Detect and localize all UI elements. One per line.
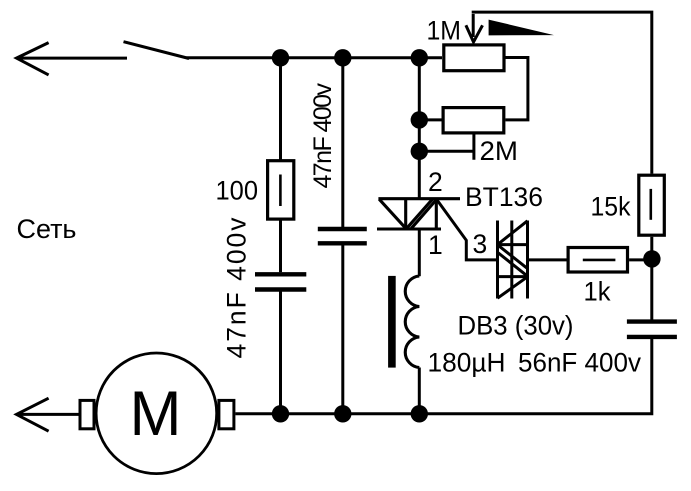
node: junction dot bottom rail left (272, 405, 289, 422)
wire: wiper to top right rail (473, 12, 652, 174)
motor M body (96, 353, 217, 474)
node: junction dot top rail 2 (334, 49, 351, 66)
adjustment wedge (black triangle) (489, 20, 554, 36)
switch S blade (124, 42, 190, 59)
resistor 1k (568, 248, 627, 273)
diac DB3 (498, 221, 528, 299)
inductor core bar (388, 276, 396, 368)
svg-text:1M: 1M (427, 16, 462, 46)
node: junction dot top rail 1 (272, 49, 289, 66)
wire: inductor to bottom rail (418, 368, 421, 414)
wire: mains lead bottom (arrow to left) (17, 398, 80, 431)
motor brush right (219, 400, 234, 428)
svg-text:M: M (130, 379, 182, 449)
node: junction dot top rail 3 (411, 49, 428, 66)
motor brush left (80, 400, 94, 428)
wire: left capacitor to bottom rail (279, 292, 282, 414)
capacitor 47nF 400v (left) (255, 274, 306, 289)
resistor 2M (443, 108, 504, 133)
inductor 180µH coil (405, 276, 419, 368)
wire: node to 2M left (419, 118, 441, 121)
wire: capacitor 56nF to bottom rail corner (235, 339, 651, 414)
wire: left branch down to resistor 100 (279, 58, 282, 160)
wire: triac gate to diac (437, 199, 498, 260)
svg-text:47nF 400v: 47nF 400v (309, 83, 337, 189)
svg-text:BT136: BT136 (465, 182, 543, 212)
svg-text:1: 1 (428, 230, 443, 260)
node: junction dot right rail (643, 250, 660, 267)
wire: 1k to right rail node (629, 258, 652, 261)
wire: 2M bottom tap (419, 134, 474, 160)
wire: top rail (187, 56, 443, 59)
node: junction dot at 2M left (411, 111, 428, 128)
svg-text:DB3 (30v): DB3 (30v) (458, 311, 574, 341)
triac BT136 (377, 199, 460, 230)
capacitor 47nF 400v (middle) (318, 229, 367, 243)
svg-text:1k: 1k (584, 277, 612, 307)
svg-text:15k: 15k (591, 191, 632, 221)
svg-text:56nF 400v: 56nF 400v (518, 347, 642, 377)
svg-text:2M: 2M (480, 136, 519, 166)
wire: middle capacitor to bottom rail (341, 246, 344, 414)
svg-text:180µH: 180µH (428, 347, 506, 377)
wire: 1M right side to 2M right side (505, 58, 528, 120)
node: junction dot at 2M tap (411, 143, 428, 160)
wire: diac to resistor 1k (528, 258, 567, 261)
wire: resistor 100 to capacitor (279, 221, 282, 273)
wire: mains lead top (arrow to left) (17, 43, 128, 75)
svg-text:100: 100 (216, 175, 259, 205)
wire: triac T1 down to inductor (418, 229, 421, 276)
wire: node down to capacitor 56nF (650, 259, 653, 320)
wire: middle branch down to capacitor (341, 58, 344, 227)
resistor 15k (639, 175, 665, 235)
potentiometer 1M body (444, 45, 504, 71)
potentiometer 1M wiper arrow (466, 14, 483, 42)
wire: pot branch down to triac (418, 58, 421, 199)
node: junction dot bottom rail inductor (411, 405, 428, 422)
svg-text:3: 3 (473, 229, 488, 259)
wire: 15k to node (650, 237, 653, 260)
svg-text:Сеть: Сеть (17, 214, 77, 244)
svg-text:2: 2 (428, 167, 443, 197)
svg-text:47nF 400v: 47nF 400v (222, 217, 252, 359)
node: junction dot bottom rail middle (334, 405, 351, 422)
resistor 100 (268, 161, 294, 219)
capacitor 56nF 400v (627, 322, 677, 337)
